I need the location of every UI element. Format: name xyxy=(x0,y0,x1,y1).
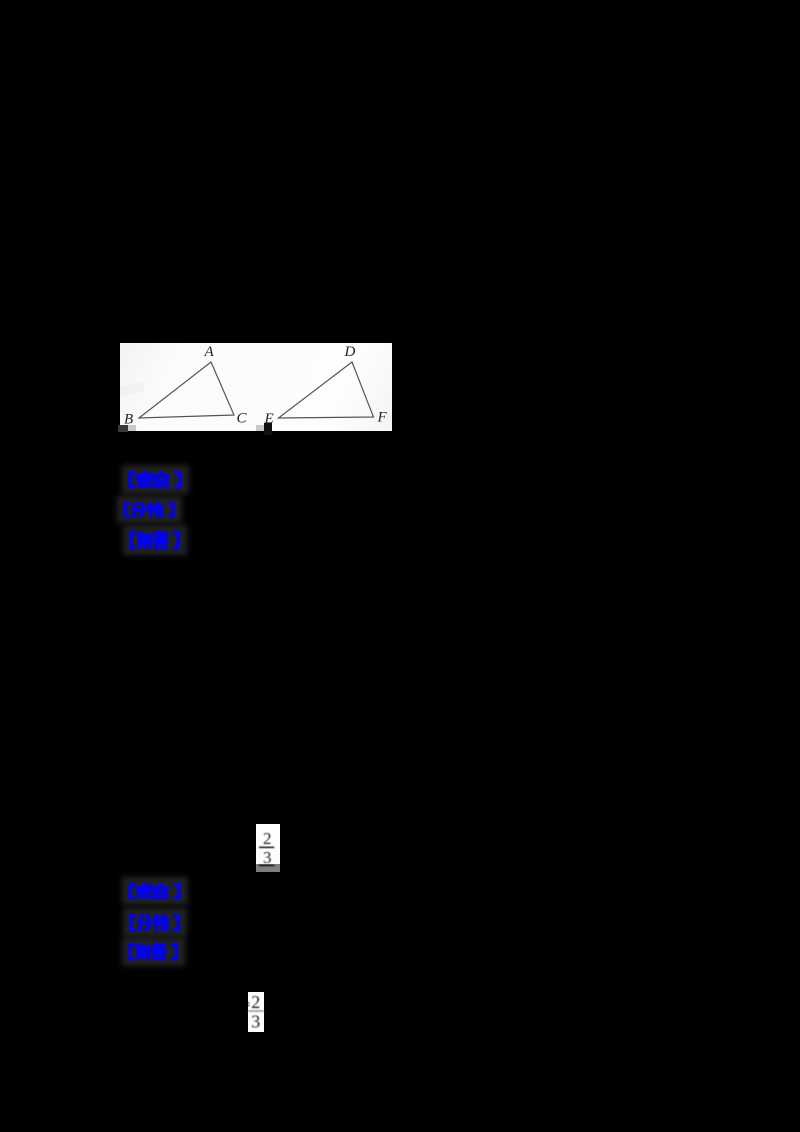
fraction 2/3 (upper) white box xyxy=(256,824,280,864)
faint smudge xyxy=(119,382,144,396)
svg-text:2: 2 xyxy=(263,829,272,848)
blue label 3 [jieda] xyxy=(123,525,187,555)
scan edge artifact: black tab below E xyxy=(264,423,273,435)
triangle DEF xyxy=(279,362,374,418)
lower fraction digits 2 over 3 with gray bar and = remnant xyxy=(248,992,264,1032)
blue label 4 [kaodian] xyxy=(122,877,188,905)
triangle ABC xyxy=(139,362,234,418)
blue label 1 [kaodian] xyxy=(122,465,189,494)
blue label 6 [jieda] xyxy=(122,937,185,966)
svg-text:3: 3 xyxy=(251,1012,260,1032)
svg-text:D: D xyxy=(344,344,356,360)
gray strip under upper fraction xyxy=(256,864,280,872)
svg-text:C: C xyxy=(237,411,248,427)
scan edge artifact: light square left of E xyxy=(256,425,264,431)
upper fraction digits 2 over 3 with bar and underline xyxy=(256,824,280,872)
scan edge artifact: light square below B xyxy=(128,425,137,431)
blue label 5 [fenxi] xyxy=(123,908,187,937)
scanned figure: triangles ABC and DEF xyxy=(120,343,392,431)
vertex labels A B C D E F xyxy=(124,344,388,427)
scan edge artifact: dark square below B xyxy=(118,425,128,432)
blue label 2 [fenxi] xyxy=(117,496,182,523)
svg-text:F: F xyxy=(377,410,388,426)
svg-text:3: 3 xyxy=(263,848,272,867)
fraction 2/3 (lower) white box xyxy=(248,992,264,1032)
svg-text:A: A xyxy=(204,344,215,360)
svg-text:2: 2 xyxy=(251,992,260,1012)
